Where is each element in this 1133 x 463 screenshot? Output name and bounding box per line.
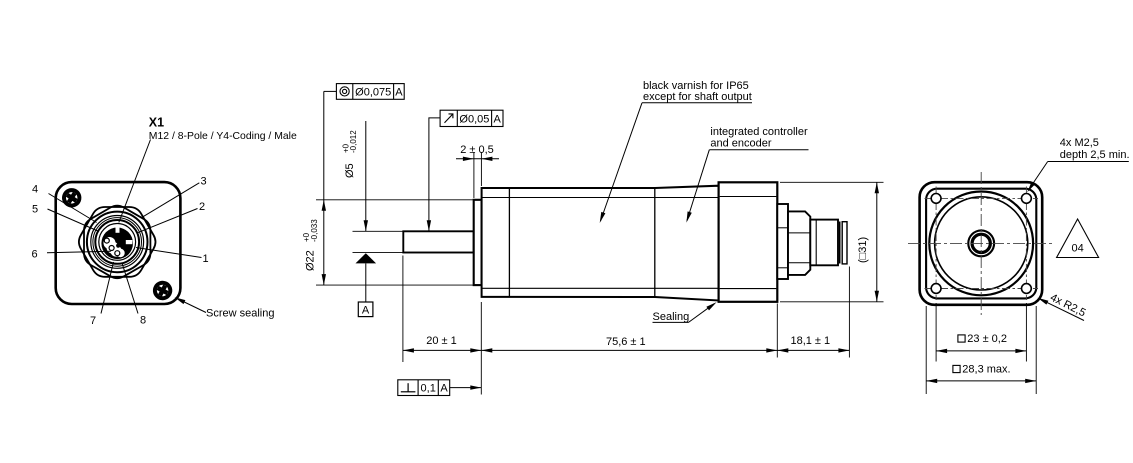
datum A triangle — [356, 253, 377, 263]
dim □31 extension top — [780, 181, 884, 183]
shaft extension bottom — [353, 252, 403, 254]
pin leader 7 — [101, 262, 114, 314]
block inner line bottom — [720, 288, 777, 290]
pin leader 6 — [47, 251, 111, 253]
controller block — [719, 182, 778, 301]
svg-text:2: 2 — [199, 201, 205, 213]
svg-text:6: 6 — [31, 249, 37, 261]
dim □31 extension bottom — [780, 301, 884, 303]
svg-text:4x M2,5: 4x M2,5 — [1060, 137, 1099, 149]
dim □23 line — [936, 350, 1026, 352]
collar groove bottom — [778, 267, 788, 269]
motor body outline — [482, 186, 719, 301]
centering boss 2mm — [474, 200, 482, 285]
screw bottom-right — [149, 277, 175, 303]
svg-text:75,6 ± 1: 75,6 ± 1 — [606, 336, 646, 348]
svg-text:3: 3 — [200, 176, 206, 188]
svg-text:Sealing: Sealing — [653, 311, 690, 323]
flange square □28,3 — [926, 189, 1036, 299]
svg-text:A: A — [494, 114, 502, 126]
svg-text:except for shaft output: except for shaft output — [643, 91, 752, 103]
fcf runout frame — [440, 110, 503, 126]
svg-text:A: A — [395, 86, 403, 98]
body inner line top — [483, 197, 719, 199]
bolt centerline vertical left — [935, 187, 937, 301]
pin leader 5 — [48, 209, 100, 232]
connector circle 4 — [99, 224, 136, 261]
nut inner line top — [789, 232, 811, 234]
svg-text:1: 1 — [202, 253, 208, 265]
svg-text:M12 / 8-Pole / Y4-Coding / Mal: M12 / 8-Pole / Y4-Coding / Male — [149, 130, 297, 142]
svg-text:28,3 max.: 28,3 max. — [962, 364, 1010, 376]
dim Ø22 line + frame leader — [323, 91, 325, 285]
dim 2±0,5 extension left — [473, 152, 475, 198]
svg-text:23 ± 0,2: 23 ± 0,2 — [967, 333, 1007, 345]
svg-text:-0,012: -0,012 — [349, 130, 358, 153]
centerline horizontal — [908, 242, 1054, 244]
screw sealing leader — [177, 299, 206, 313]
housing square □31 — [920, 182, 1043, 305]
svg-text:20 ± 1: 20 ± 1 — [426, 335, 457, 347]
dim □28,3 line — [926, 380, 1036, 382]
svg-text:04: 04 — [1071, 243, 1083, 255]
svg-text:-0,033: -0,033 — [310, 219, 319, 242]
shaft — [403, 231, 473, 252]
bolt centerline horizontal bottom — [925, 288, 1039, 290]
dim □28,3 extension right — [1035, 306, 1037, 394]
dim □28,3 text — [953, 365, 960, 372]
screw hole bottom-left — [931, 284, 941, 294]
svg-text:Screw sealing: Screw sealing — [206, 308, 274, 320]
pin leader 3 — [141, 183, 199, 218]
svg-text:0,1: 0,1 — [421, 383, 436, 395]
pin leader 2 — [138, 209, 198, 233]
connector collar — [777, 204, 788, 279]
svg-text:Ø5: Ø5 — [344, 163, 356, 178]
dim extension body front — [480, 302, 482, 395]
barrel ring 1 — [839, 222, 841, 264]
svg-text:7: 7 — [90, 315, 96, 327]
svg-text:and encoder: and encoder — [710, 137, 771, 149]
datum A box — [358, 302, 373, 317]
connector hex nut — [79, 207, 156, 277]
dim 2±0,5 extension right — [480, 152, 482, 186]
flange square left view — [56, 182, 181, 304]
screw hole top-right — [1022, 194, 1032, 204]
svg-text:4: 4 — [32, 184, 38, 196]
dim Ø5 leader — [365, 121, 367, 231]
svg-text:Ø22: Ø22 — [305, 250, 317, 271]
shaft extension top — [353, 230, 403, 232]
nut inner line bottom — [789, 262, 811, 264]
block inner line top — [720, 196, 777, 198]
connector seal hex — [84, 206, 150, 279]
svg-text:A: A — [440, 383, 448, 395]
connector circle 3 — [95, 220, 139, 264]
dim □31 line — [876, 182, 878, 301]
connector barrel — [810, 220, 838, 266]
connector circle outer — [87, 212, 148, 273]
label 4x R2,5 — [1039, 298, 1085, 320]
front face circle inner — [935, 197, 1028, 290]
svg-text:black varnish for IP65: black varnish for IP65 — [643, 80, 749, 92]
svg-text:8: 8 — [140, 315, 146, 327]
front face circle outer — [929, 192, 1033, 296]
dim Ø22 text — [302, 219, 319, 271]
svg-text:2 ± 0,5: 2 ± 0,5 — [460, 144, 494, 156]
pin leader 8 — [122, 263, 138, 314]
dim □23 text — [958, 335, 965, 342]
svg-text:X1: X1 — [149, 116, 164, 130]
dim 20 extension left — [402, 256, 404, 363]
dim □23 extension left — [935, 303, 937, 362]
dim line 20/75,6/18,1 — [403, 349, 850, 351]
fcf concentricity frame — [336, 84, 404, 100]
X1 leader — [119, 140, 151, 223]
dim □28,3 extension left — [925, 306, 927, 394]
pin leader 1 — [136, 248, 202, 258]
svg-text:integrated controller: integrated controller — [710, 126, 808, 138]
body inner line bottom — [483, 287, 719, 289]
pin leader 4 — [49, 194, 97, 223]
dim □31 text — [857, 237, 869, 263]
centerline vertical — [980, 172, 982, 315]
svg-text:5: 5 — [32, 204, 38, 216]
body front cap line — [508, 188, 510, 296]
svg-text:A: A — [362, 305, 370, 317]
screw hole top-left — [931, 194, 941, 204]
fcf perpendicularity frame — [398, 380, 450, 396]
bolt centerline vertical right — [1025, 187, 1027, 301]
barrel end cap — [842, 222, 847, 264]
screw hole bottom-right — [1022, 284, 1032, 294]
dim □23 extension right — [1025, 303, 1027, 362]
connector circle 2 — [91, 216, 144, 269]
dim Ø22 extension top — [316, 199, 473, 201]
svg-text:Ø0,075: Ø0,075 — [355, 86, 391, 98]
dim 2±0,5 line — [456, 158, 499, 160]
svg-text:Ø0,05: Ø0,05 — [459, 114, 489, 126]
bolt centerline horizontal top — [925, 197, 1039, 199]
dim extension block end — [776, 304, 778, 358]
connector nut — [788, 211, 810, 275]
svg-text:(□31): (□31) — [857, 237, 869, 263]
fcf runout leader — [429, 118, 440, 231]
revision triangle 04 — [1057, 219, 1099, 258]
connector pin insert — [101, 224, 133, 259]
center hub rings — [967, 229, 995, 257]
barrel groove line — [815, 220, 817, 265]
dim Ø5 text — [341, 130, 358, 178]
connector circle 2b — [93, 218, 142, 267]
svg-text:18,1 ± 1: 18,1 ± 1 — [790, 335, 830, 347]
screw top-left — [58, 184, 85, 211]
dim extension connector end — [848, 267, 850, 358]
dim Ø22 extension bottom — [316, 284, 473, 286]
svg-text:depth 2,5 min.: depth 2,5 min. — [1060, 149, 1130, 161]
fcf perpendicularity leader — [450, 387, 482, 389]
motor/controller junction line — [654, 188, 656, 297]
collar groove top — [778, 227, 788, 229]
